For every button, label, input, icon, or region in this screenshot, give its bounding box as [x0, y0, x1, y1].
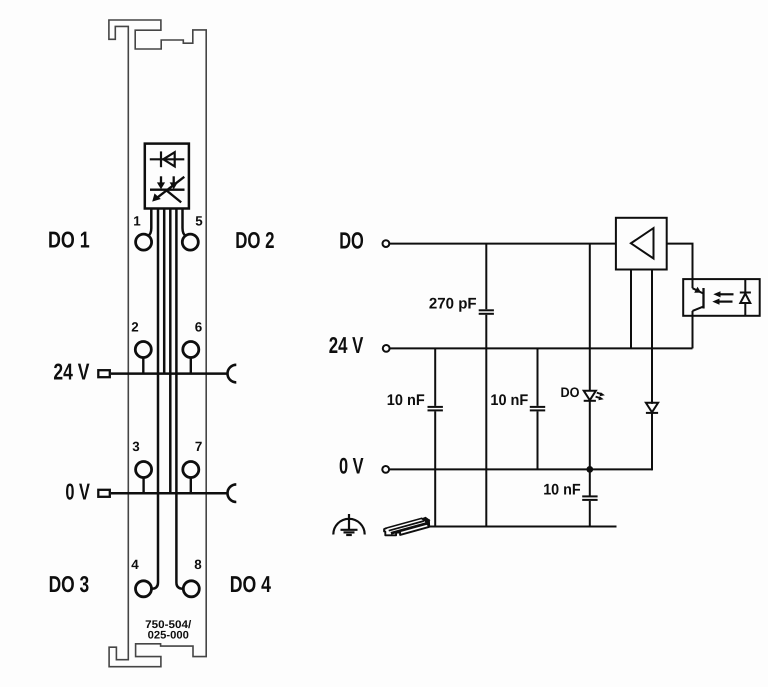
indicator box U1	[145, 144, 189, 209]
box pin wires	[148, 209, 186, 589]
24V rail through module	[111, 372, 228, 375]
left end profile and foot	[384, 527, 429, 536]
svg-text:5: 5	[195, 214, 203, 229]
pin 7	[183, 462, 199, 478]
svg-text:025-000: 025-000	[148, 630, 189, 642]
0V rail C hook	[227, 484, 236, 502]
diode D2 freewheel	[646, 403, 658, 413]
wire box to pin 4	[152, 209, 159, 589]
capacitor C3 10nF wire lower (to 0V)	[537, 411, 539, 469]
svg-text:DO 1: DO 1	[48, 227, 90, 253]
svg-text:24 V: 24 V	[53, 359, 89, 385]
stem pin7 to 0V rail	[190, 477, 192, 493]
phototransistor collector arrow	[694, 287, 701, 293]
svg-text:7: 7	[195, 439, 202, 454]
optocoupler phototransistor	[693, 279, 704, 316]
24V rail square connector	[98, 370, 110, 377]
svg-text:DO 3: DO 3	[49, 571, 90, 597]
capacitor C3 10nF wire upper	[537, 348, 539, 406]
svg-text:24 V: 24 V	[329, 332, 364, 358]
svg-text:8: 8	[194, 557, 202, 572]
svg-text:DO: DO	[561, 385, 580, 400]
optocoupler LED	[740, 279, 751, 316]
capacitor C1 270pF plates	[479, 310, 494, 314]
24V rail C hook	[227, 365, 236, 383]
svg-text:DO 4: DO 4	[230, 571, 271, 597]
node DO terminal	[383, 240, 390, 247]
stem pin6 to 24V rail	[190, 357, 192, 373]
wire driver pin right down through 24V to diode	[651, 270, 653, 404]
node 24V terminal	[383, 345, 390, 352]
LED pair in indicator box	[150, 176, 185, 202]
wire box to pin 8	[176, 209, 183, 589]
DIN rail icon	[384, 517, 429, 535]
capacitor C2 10nF plates	[428, 407, 443, 411]
capacitor C1 270pF wire lower (to earth bus)	[485, 315, 487, 527]
right end caps	[422, 517, 429, 521]
stem pin2 to 24V rail	[142, 357, 144, 373]
svg-text:10 nF: 10 nF	[490, 392, 528, 409]
wire box to pin 5	[183, 209, 186, 236]
wire box to 24V bus	[163, 209, 166, 374]
driver U2 triangle	[631, 228, 654, 258]
rear flange inner edge	[389, 521, 424, 531]
wire driver output to optocoupler	[667, 244, 693, 280]
capacitor C2 10nF wire upper	[434, 348, 436, 406]
0V rail through module	[111, 492, 228, 495]
wire 0V line	[389, 468, 652, 470]
pin 6	[183, 342, 199, 358]
svg-text:10 nF: 10 nF	[543, 481, 581, 498]
svg-text:3: 3	[132, 439, 139, 454]
front flange side face	[391, 524, 426, 534]
svg-text:2: 2	[131, 319, 138, 334]
rear flange top edge	[387, 518, 423, 528]
svg-text:0 V: 0 V	[339, 453, 364, 478]
capacitor C4 10nF wire upper	[589, 469, 591, 495]
optocoupler light arrows	[712, 291, 733, 305]
LED DO indicator	[584, 391, 596, 401]
pin 3	[136, 462, 152, 478]
wire DO line	[389, 243, 616, 245]
svg-text:0 V: 0 V	[65, 478, 90, 504]
svg-text:270 pF: 270 pF	[429, 295, 477, 312]
wire earth bus	[428, 526, 617, 528]
module outline	[109, 20, 206, 667]
terminal circles pins 1-8	[135, 234, 199, 597]
pin 8	[183, 581, 199, 597]
wire 24V line	[390, 347, 693, 349]
svg-text:6: 6	[195, 319, 202, 334]
wire box to 0V bus	[169, 209, 172, 494]
wire box to pin 1	[148, 209, 151, 236]
wire optocoupler emitter to 24V	[692, 316, 694, 349]
diode D1 in indicator box	[150, 151, 185, 167]
driver U2 box	[616, 218, 667, 270]
svg-text:4: 4	[131, 557, 139, 572]
capacitor C2 10nF wire lower	[434, 411, 436, 526]
node 0V terminal	[382, 466, 389, 473]
svg-text:DO: DO	[339, 227, 364, 253]
stem pin3 to 0V rail	[142, 477, 144, 493]
capacitor C4 10nF wire lower (to earth bus)	[589, 501, 591, 527]
pin 1	[136, 234, 152, 250]
0V rail square connector	[98, 490, 110, 497]
wire driver pin left to 24V	[630, 270, 632, 349]
capacitor C3 10nF plates	[530, 407, 545, 411]
pin 5	[182, 234, 198, 250]
pin 2	[135, 342, 151, 358]
pin 4	[136, 581, 152, 597]
junction node on 0V	[586, 466, 593, 473]
svg-text:1: 1	[133, 214, 141, 229]
LED emission arrows	[596, 392, 605, 400]
capacitor C1 270pF wire upper	[485, 244, 487, 310]
svg-text:DO 2: DO 2	[235, 227, 274, 253]
wire LED branch upper (DO line down)	[589, 244, 591, 391]
optocoupler U3 box	[683, 279, 760, 316]
wire LED branch lower (to junction)	[589, 401, 591, 470]
earth symbol	[333, 514, 364, 535]
wire diode to 0V	[651, 413, 653, 471]
capacitor C4 10nF plates	[582, 496, 597, 500]
svg-text:10 nF: 10 nF	[387, 392, 425, 409]
